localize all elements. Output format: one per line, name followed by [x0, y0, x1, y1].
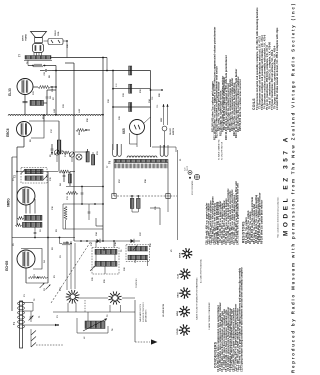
- socket EL33: [179, 268, 190, 279]
- wire x103 vertical: [102, 58, 104, 242]
- capacitor C22: [44, 69, 46, 72]
- speaker socket: [194, 174, 199, 179]
- resistor R9: [33, 64, 43, 67]
- svg-text:6M5G: 6M5G: [177, 310, 179, 316]
- svg-text:2 GANG TUNING CONDENSER: 2 GANG TUNING CONDENSER: [208, 302, 211, 330]
- svg-text:L1 Hash filter choke wound on: L1 Hash filter choke wound on dowel, V.K…: [275, 27, 279, 110]
- output transformer T7: [33, 44, 44, 53]
- resistor R3: [62, 242, 70, 245]
- wire mains bottom: [152, 146, 176, 148]
- wire x135 vertical: [134, 300, 136, 342]
- IFT2 internal lead: [95, 254, 97, 261]
- IF transformer IFT3: [126, 245, 150, 261]
- wire IFT1 top: [17, 171, 58, 173]
- resistor list part 1: [242, 193, 264, 244]
- svg-text:R10: R10: [79, 132, 81, 135]
- svg-text:SPKR: SPKR: [180, 252, 182, 258]
- IF transformer IFT2: [92, 248, 119, 275]
- wire x177: [177, 150, 179, 240]
- svg-text:POSITION 1: POSITION 1: [136, 278, 138, 288]
- pilot lamp: [76, 154, 82, 160]
- tube EL33: [17, 79, 33, 95]
- svg-text:TRANS: TRANS: [24, 33, 27, 41]
- diode D2: [131, 239, 134, 243]
- resistor R19: [129, 66, 132, 75]
- T6 end loops left: [113, 144, 117, 157]
- wire cathode EL33: [24, 95, 26, 115]
- grid coupling wire lower: [63, 203, 103, 205]
- dial lamp assembly: [188, 171, 192, 175]
- resistor R5: [59, 170, 70, 173]
- svg-text:(VALVE SOCKETS VIEWED FROM UND: (VALVE SOCKETS VIEWED FROM UNDERSIDE): [196, 277, 199, 320]
- wire bottom bus: [53, 311, 135, 313]
- svg-text:SWITCH: SWITCH: [173, 127, 175, 135]
- svg-text:MODEL EZ 357 A: MODEL EZ 357 A: [283, 134, 290, 236]
- svg-text:C46 .01 mfd. 600 v.w. paper tu: C46 .01 mfd. 600 v.w. paper tubular main…: [236, 183, 240, 245]
- svg-text:FIELD: FIELD: [55, 30, 57, 36]
- wire speaker to plug: [44, 40, 49, 42]
- padder coil T4: [23, 222, 43, 227]
- grid resistor squiggle: [28, 276, 47, 278]
- svg-text:C28: C28: [152, 97, 154, 100]
- svg-text:EBC6: EBC6: [178, 292, 180, 297]
- svg-text:EL33: EL33: [8, 88, 12, 96]
- T6 winding band: [114, 159, 168, 162]
- diode D1: [97, 239, 100, 243]
- resistor R21: [129, 103, 132, 112]
- T6 mounting feet: [112, 194, 116, 199]
- svg-text:C29: C29: [157, 105, 159, 108]
- wire EBC6 cathode: [23, 137, 25, 148]
- svg-text:6M5G: 6M5G: [7, 198, 11, 207]
- resistor R11: [86, 152, 89, 163]
- T7 secondary winding row: [25, 56, 51, 60]
- svg-text:SHOWN IN POSITION 1: SHOWN IN POSITION 1: [143, 302, 145, 322]
- wire between wafers: [80, 297, 108, 299]
- wave band switch wafer 2: [108, 291, 121, 304]
- svg-text:Reproduced by Radio Museum wit: Reproduced by Radio Museum with permissi…: [291, 2, 296, 373]
- wire ECH35 down: [25, 268, 27, 283]
- wire AVC line: [23, 324, 58, 326]
- wire x113 vertical: [112, 71, 114, 151]
- wire mains pair: [163, 104, 165, 125]
- capacitor C21: [46, 96, 49, 98]
- wafer1 feeds: [66, 241, 68, 290]
- chassis shield hatch: [31, 331, 36, 336]
- wave band switch wafer 1: [66, 290, 80, 304]
- wire HT bus top: [51, 57, 107, 59]
- svg-text:R25 50,000 ohm ½w. carbon tone: R25 50,000 ohm ½w. carbon tone corrector: [238, 79, 242, 131]
- svg-text:SPKR OPERATED: SPKR OPERATED: [191, 180, 194, 195]
- svg-text:WAVE BAND SWITCH: WAVE BAND SWITCH: [139, 303, 142, 322]
- wire mains vertical: [150, 117, 152, 147]
- T6 body outline: [113, 163, 115, 197]
- resistor R20: [129, 84, 132, 93]
- speaker field coil plug: [48, 39, 63, 45]
- osc coil wires: [76, 318, 78, 333]
- svg-text:ECH35: ECH35: [177, 328, 179, 334]
- wire AVC bus: [74, 240, 140, 242]
- variable capacitor C1: [30, 316, 33, 318]
- wire corner: [102, 226, 104, 241]
- resistor R10: [76, 128, 85, 131]
- wire left bus x12: [11, 157, 13, 311]
- tube 6X5: [130, 120, 145, 135]
- tube 6M5G: [17, 187, 35, 205]
- wire to chassis: [150, 207, 160, 209]
- svg-text:COIL: COIL: [58, 30, 60, 36]
- svg-text:C21: C21: [50, 96, 52, 99]
- dashed gang line low: [84, 300, 86, 312]
- resistor R7 plate load: [57, 140, 61, 154]
- resistor R6a zigzag: [62, 151, 71, 154]
- svg-text:R9 150 ohm 1w. carbon bias re: R9 150 ohm 1w. carbon bias resistor: [260, 200, 264, 244]
- resistor R6: [68, 174, 71, 183]
- gang dashed diagonal: [51, 241, 91, 303]
- condenser list part 1: [214, 267, 244, 372]
- socket speaker plug: [181, 248, 192, 259]
- wire right vertical x74: [73, 63, 75, 241]
- capacitor C8: [34, 231, 37, 233]
- tube ECH35: [17, 250, 35, 268]
- svg-text:This condenser deleted in late: This condenser deleted in later producti…: [277, 196, 280, 238]
- resistor R8 grid stopper: [38, 85, 50, 88]
- svg-text:6X5: 6X5: [122, 128, 126, 134]
- resistor R15 vertical zigzag: [64, 206, 67, 220]
- wire HT rungs: [113, 70, 151, 72]
- resistor R14 zigzag: [66, 191, 78, 194]
- speaker LS1: [31, 32, 47, 38]
- svg-text:ON-OFF: ON-OFF: [170, 127, 172, 135]
- capacitor C14: [63, 174, 66, 176]
- svg-text:S1 WAVE CHANGE SW.: S1 WAVE CHANGE SW.: [218, 139, 221, 160]
- svg-text:I.F. 455 KC/S: I.F. 455 KC/S: [162, 303, 165, 317]
- aerial rod T1: [20, 301, 23, 348]
- condenser list part 2: [205, 181, 240, 245]
- wire het lower: [63, 228, 103, 230]
- IF transformer T2: [21, 168, 47, 184]
- T6 end loops right: [160, 145, 164, 156]
- wire AVC line y237: [12, 237, 75, 239]
- heater wiring bus: [8, 115, 103, 116]
- svg-text:C13 2 gang variable tuning con: C13 2 gang variable tuning condenser wit…: [239, 267, 243, 372]
- svg-text:(BROADCAST): (BROADCAST): [145, 309, 148, 322]
- back-bias choke: [30, 100, 44, 105]
- tuning trimmer arrows: [40, 283, 45, 288]
- capacitor C25: [88, 211, 91, 213]
- switch legs: [109, 305, 111, 312]
- coil list: [252, 7, 279, 110]
- socket ECH35: [179, 324, 190, 335]
- svg-text:C22: C22: [44, 72, 46, 75]
- svg-text:SPKR: SPKR: [23, 35, 25, 41]
- svg-text:S2 ON-OFF SWITCH: S2 ON-OFF SWITCH: [221, 141, 223, 160]
- wire screen feed: [55, 66, 57, 115]
- T6 primary loops: [127, 156, 157, 158]
- wire V2 leads: [25, 205, 27, 214]
- pointer arrow: [135, 341, 150, 343]
- on-off switch S2: [162, 126, 167, 131]
- oscillator coil T3: [24, 215, 42, 220]
- resistor R12: [92, 155, 95, 166]
- socket EBC6: [179, 287, 190, 298]
- grid coupling wire upper: [66, 186, 103, 188]
- T6 secondary comb: [113, 164, 115, 169]
- voltage divider R17 R18: [130, 198, 134, 208]
- svg-text:ECH35: ECH35: [5, 260, 9, 271]
- wire aerial top: [23, 302, 33, 304]
- trimmer condensers: [54, 150, 59, 155]
- tube EBC6: [17, 122, 32, 137]
- wire plate loop EBC6: [29, 121, 44, 138]
- wire x48 vertical: [47, 172, 49, 284]
- oscillator coil L2: [85, 321, 105, 329]
- svg-text:EBC6: EBC6: [6, 128, 10, 137]
- wire plate loop ECH35: [21, 249, 42, 270]
- svg-text:ALL GANG SHORT DIAGONAL: ALL GANG SHORT DIAGONAL: [200, 259, 203, 283]
- capacitor C17: [51, 148, 54, 150]
- svg-text:PILOT: PILOT: [187, 166, 189, 171]
- svg-text:EL33: EL33: [178, 274, 180, 279]
- resistor list part 2: [211, 27, 242, 140]
- wire rectifier cathode: [136, 135, 138, 148]
- wire heater/plate feed: [52, 70, 113, 72]
- capacitor C20 cathode bypass: [23, 101, 28, 103]
- capacitor C24: [81, 192, 84, 194]
- socket 6M5G: [179, 306, 190, 317]
